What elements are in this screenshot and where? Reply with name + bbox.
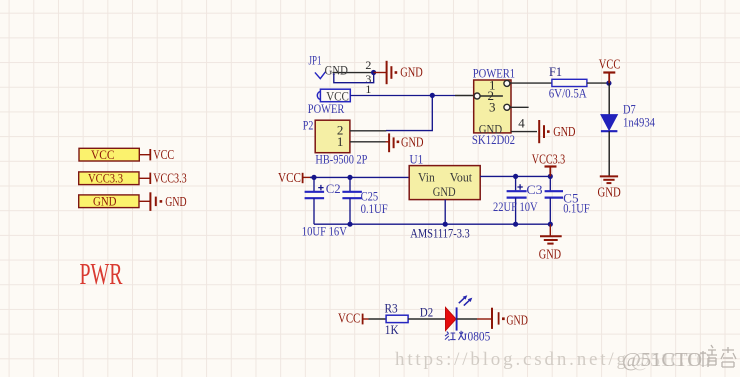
svg-text:VCC3.3: VCC3.3 [88,171,123,186]
earth ground symbol [540,236,562,243]
svg-text:0805: 0805 [468,328,491,343]
wire pin 4 [511,131,537,133]
wire pin 3 loop [334,73,374,83]
LED arrows [459,295,473,305]
svg-text:HB-9500 2P: HB-9500 2P [315,151,367,166]
power symbol VCC [603,73,615,84]
svg-text:GND: GND [506,313,528,328]
junction node [548,174,553,179]
wire [363,318,369,320]
wire fuse to VCC node [587,82,609,84]
port box VCC [79,147,139,162]
wire to ground [549,224,551,236]
svg-text:22UF 10V: 22UF 10V [493,199,538,214]
svg-text:GND: GND [539,246,561,261]
svg-text:https://blog.csdn.net/g: https://blog.csdn.net/g [395,349,627,370]
junction node [347,222,352,227]
svg-text:@51CTO: @51CTO [631,349,711,371]
junction node [513,222,518,227]
svg-text:U1: U1 [410,151,424,166]
wire P2 pin 1 [350,141,386,143]
junction node [443,222,448,227]
capacitor C3 [507,176,527,224]
switch pin 3 contact [504,104,510,110]
connector JP1 VCC plug [317,88,350,103]
net label VCC3.3 [150,171,187,186]
wire input rail [310,176,409,178]
power ground symbol [492,308,505,329]
net label VCC [338,311,363,326]
LED D2 [446,307,457,330]
junction node [311,175,316,180]
junction node VCC [606,81,611,86]
svg-text:AMS1117-3.3: AMS1117-3.3 [410,225,470,240]
wire [408,318,445,320]
switch pin 1 contact [504,80,510,86]
svg-text:D2: D2 [420,304,433,319]
svg-text:4: 4 [518,116,525,131]
wire [139,154,150,156]
wire pin 1 to switch [350,95,455,97]
regulator U1 body [409,166,480,200]
svg-text:3: 3 [489,99,496,114]
fuse F1 [552,79,587,86]
switch POWER1 body [474,80,511,133]
wire pin 3 stub [510,106,529,108]
junction node [548,222,553,227]
wire vertical branch [386,95,432,130]
capacitor C5 [545,176,563,224]
junction node [347,175,352,180]
svg-text:0.1UF: 0.1UF [563,201,590,216]
capacitor C2 [305,177,325,224]
wire VCC node to D7 [608,83,610,115]
switch lever [480,95,503,97]
svg-text:GND: GND [433,184,456,199]
watermark 51CTO [622,349,711,371]
svg-text:0.1UF: 0.1UF [361,201,388,216]
wire P2 pin 2 [350,130,386,132]
diode D7 [601,115,618,132]
svg-text:POWER: POWER [308,101,345,116]
earth ground symbol [600,176,618,183]
wire ground rail [314,223,550,225]
wire D7 to GND [608,131,610,175]
value red-LED glyphs [445,331,467,340]
svg-text:VCC3.3: VCC3.3 [153,171,187,186]
wire [457,318,477,320]
svg-text:VCC: VCC [91,147,115,162]
svg-text:1K: 1K [385,322,399,337]
svg-text:P2: P2 [303,118,314,132]
power ground symbol [150,192,162,211]
svg-text:2: 2 [365,58,371,72]
svg-text:GND: GND [401,135,424,150]
wire [303,176,314,178]
port box VCC3.3 [79,171,139,186]
power ground symbol [539,120,549,143]
svg-text:VCC: VCC [153,147,174,162]
port box GND [79,194,139,209]
svg-text:R3: R3 [385,300,398,315]
junction node [430,93,435,98]
wire [369,318,387,320]
svg-text:VCC: VCC [338,311,360,326]
svg-text:SK12D02: SK12D02 [472,132,515,147]
watermark blog glyphs [700,345,736,367]
svg-text:GND: GND [93,194,117,209]
svg-text:VCC3.3: VCC3.3 [532,152,566,167]
svg-text:GND: GND [553,124,575,139]
svg-text:GND: GND [598,185,621,200]
junction node [513,174,518,179]
svg-text:C2: C2 [326,181,341,196]
wire pin 2 [333,72,374,74]
svg-text:F1: F1 [549,64,562,79]
wire U1 GND pin [444,200,446,225]
svg-text:6V/0.5A: 6V/0.5A [549,86,588,101]
net label VCC [150,147,174,162]
switch pin 2 contact [474,93,480,99]
resistor R3 [386,315,408,322]
wire [139,200,150,202]
svg-text:GND: GND [165,194,186,209]
power ground symbol [389,133,399,152]
svg-text:C3: C3 [526,182,542,197]
svg-text:GND: GND [325,64,348,78]
svg-text:1n4934: 1n4934 [623,114,655,129]
capacitor C25 [342,177,362,224]
connector JP1 switch contact [315,72,326,79]
svg-text:1: 1 [337,134,344,149]
power ground symbol [387,61,398,84]
wire [139,177,150,179]
connector P2 body [315,120,350,153]
wire [374,72,386,74]
svg-text:GND: GND [400,64,423,79]
svg-text:JP1: JP1 [309,54,322,68]
svg-text:VCC: VCC [278,170,301,185]
power symbol VCC3.3 [545,167,557,177]
junction [371,70,376,75]
net label VCC [278,170,303,185]
svg-text:10UF 16V: 10UF 16V [302,224,348,239]
wire [386,141,389,143]
wire Vout rail [480,175,550,177]
svg-text:Vin: Vin [418,170,435,185]
svg-text:1: 1 [365,82,371,96]
svg-text:Vout: Vout [450,170,473,185]
svg-text:PWR: PWR [80,257,123,291]
svg-text:VCC: VCC [599,56,621,71]
wire pin 1 to fuse [510,82,552,84]
